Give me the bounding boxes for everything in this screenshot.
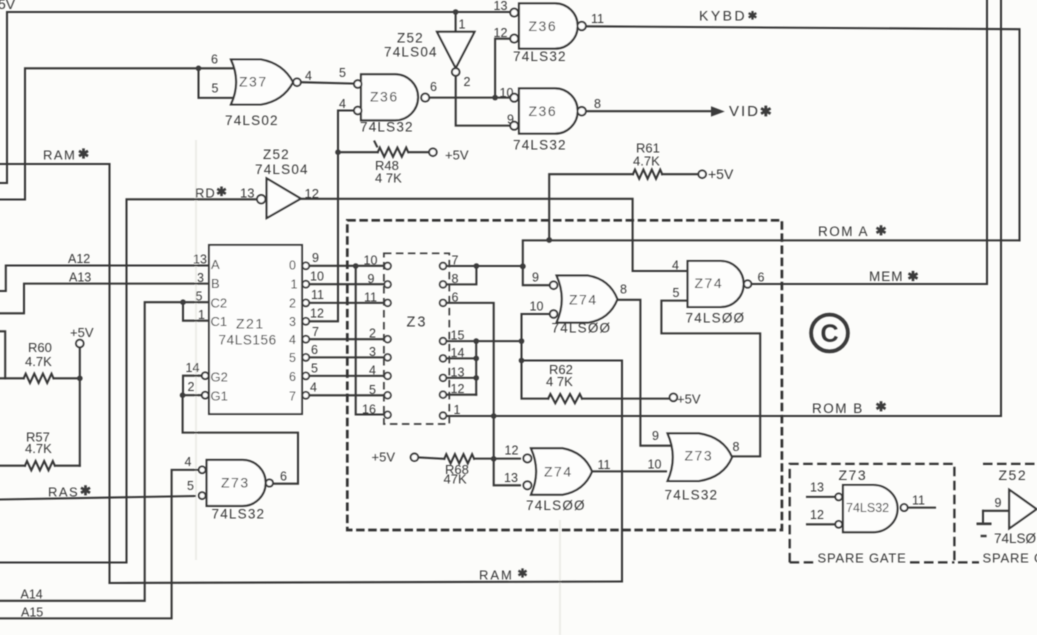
svg-text:5: 5: [339, 66, 346, 80]
svg-text:74LS32: 74LS32: [513, 49, 567, 64]
wire Z37 pin5 jog: [199, 68, 237, 98]
svg-text:1: 1: [291, 278, 298, 292]
wire G2 stub: [183, 376, 202, 396]
svg-text:5: 5: [311, 362, 318, 376]
terminal +5V R68: [411, 454, 419, 462]
svg-text:74LS32: 74LS32: [360, 119, 414, 134]
svg-text:4: 4: [305, 69, 312, 83]
svg-text:6: 6: [280, 470, 287, 484]
terminal +5V R60: [76, 340, 84, 348]
star RAM bottom: [518, 568, 526, 577]
svg-text:C2: C2: [211, 296, 228, 311]
svg-text:B: B: [211, 276, 220, 291]
wire G enable net to Z73 out: [183, 395, 298, 484]
wire R48 left lead: [338, 151, 378, 153]
svg-text:SPARE G: SPARE G: [983, 551, 1037, 566]
svg-text:12: 12: [494, 26, 508, 40]
wire +5V top rail: [0, 12, 510, 183]
dashed spare box 2 top: [983, 463, 1037, 465]
svg-text:4.7K: 4.7K: [633, 154, 660, 169]
svg-text:4.7K: 4.7K: [25, 441, 52, 456]
svg-text:MEM: MEM: [869, 269, 904, 284]
svg-text:Z73: Z73: [839, 467, 868, 483]
wire Z21 out0 to Z3 pin10: [309, 265, 384, 267]
wire R61 riser: [549, 174, 633, 240]
svg-text:11: 11: [912, 494, 925, 508]
svg-text:74LS32: 74LS32: [665, 488, 719, 503]
inverter Z52 top: [437, 32, 475, 68]
svg-text:13: 13: [810, 481, 824, 495]
svg-text:74LS32: 74LS32: [212, 507, 266, 522]
svg-text:Z3: Z3: [407, 315, 428, 331]
ground bar: [977, 522, 992, 525]
star MEM: [909, 271, 918, 281]
ground tick: [981, 535, 987, 537]
Z36 bottom output bubble 8: [578, 107, 586, 115]
wire Z74 pin9 jog: [523, 266, 550, 285]
svg-text:G1: G1: [211, 389, 228, 404]
inverter Z52 spare: [1009, 490, 1036, 529]
svg-text:10: 10: [364, 254, 378, 268]
wire R48 right lead: [409, 151, 430, 153]
wire A13: [0, 284, 210, 314]
svg-text:13: 13: [504, 471, 518, 485]
svg-text:2: 2: [369, 327, 376, 341]
svg-text:4: 4: [369, 364, 376, 378]
Z73 spare input bubble 13: [835, 494, 842, 501]
terminal +5V R48: [429, 148, 437, 156]
wire A14 net to C2: [0, 302, 210, 601]
svg-text:11: 11: [591, 12, 604, 26]
svg-text:RD: RD: [195, 186, 216, 201]
svg-text:+5V: +5V: [445, 148, 469, 163]
Z37 output bubble: [293, 78, 301, 86]
svg-text:0: 0: [289, 259, 296, 273]
svg-text:8: 8: [733, 440, 740, 454]
Z21 output bubbles: [302, 262, 309, 398]
svg-text:74LS32: 74LS32: [513, 138, 567, 153]
svg-text:1: 1: [454, 403, 461, 417]
resistor R68: [444, 454, 474, 463]
svg-text:G2: G2: [211, 369, 228, 384]
resistor R60: [24, 374, 54, 383]
resistor R57: [25, 461, 55, 470]
wire R57 right lead: [55, 465, 80, 467]
wire A15 net to Z73 pin4: [0, 470, 198, 619]
wire R62 right lead: [582, 398, 670, 400]
wire A12: [0, 266, 210, 292]
svg-text:5: 5: [369, 383, 376, 397]
Z52 top output bubble: [452, 68, 460, 76]
Z73 spare output bubble 11: [901, 504, 908, 511]
svg-text:11: 11: [311, 288, 324, 302]
svg-text:RAS: RAS: [48, 485, 79, 500]
svg-text:4 7K: 4 7K: [546, 374, 573, 389]
svg-text:74LS04: 74LS04: [255, 162, 309, 177]
gate NAND Z74 left: [557, 276, 618, 323]
svg-text:Z74: Z74: [544, 464, 573, 480]
svg-text:47K: 47K: [444, 472, 467, 487]
wire Z3 row6 net to Z74 pin13: [446, 303, 520, 485]
inverter Z52 RD: [267, 178, 301, 218]
svg-text:12: 12: [810, 508, 824, 522]
svg-text:10: 10: [648, 458, 662, 472]
svg-text:Z74: Z74: [695, 275, 724, 291]
gate OR Z36 middle: [361, 74, 418, 120]
Z74 right output bubble 6: [744, 280, 751, 287]
svg-text:5: 5: [212, 82, 219, 96]
scan streak 2: [559, 520, 561, 635]
gate OR Z36 top: [519, 3, 578, 48]
star VID: [761, 106, 770, 117]
wire Z3 pin16 riser: [356, 266, 385, 415]
svg-text:Z73: Z73: [221, 475, 250, 491]
gate OR Z36 bottom: [519, 88, 578, 133]
Z73 RAS input bubble 4: [199, 466, 206, 473]
svg-text:11: 11: [364, 291, 377, 305]
wire RAM* riser: [108, 164, 110, 583]
svg-text:3: 3: [369, 345, 376, 359]
Z21 out numbers 0-7: [289, 259, 298, 404]
svg-text:6: 6: [452, 291, 459, 305]
svg-text:12: 12: [305, 186, 319, 201]
svg-text:74LS04: 74LS04: [384, 45, 438, 60]
wire R60 left lead: [0, 377, 24, 379]
svg-text:SPARE GATE: SPARE GATE: [818, 551, 907, 566]
wire Z3 row13: [446, 377, 476, 379]
svg-text:11: 11: [598, 458, 611, 472]
svg-text:6: 6: [758, 271, 765, 285]
R48 tick mark: [375, 142, 378, 147]
svg-text:3: 3: [197, 271, 204, 285]
wire +5V stub left: [0, 331, 5, 378]
wire R68 left lead: [418, 457, 444, 458]
svg-text:9: 9: [312, 251, 319, 265]
svg-text:+5V: +5V: [677, 392, 701, 407]
Z36 mid input bubble 5: [354, 80, 362, 88]
svg-text:A13: A13: [69, 271, 91, 285]
svg-text:10: 10: [500, 86, 514, 100]
wire Z21 out7 to Z3 pin5: [309, 394, 384, 396]
star RAS: [81, 485, 90, 495]
resistor R48: [378, 148, 408, 157]
svg-text:5V: 5V: [0, 0, 16, 12]
svg-text:74LSØØ: 74LSØØ: [526, 498, 586, 513]
wire Z52 out to Z36 pin9: [456, 76, 511, 126]
wire RAS*: [0, 496, 195, 500]
svg-text:Z52: Z52: [397, 30, 424, 45]
wire R68 to Z74 pin12: [474, 458, 520, 460]
wire R60-R57 riser: [79, 378, 81, 465]
svg-text:13: 13: [193, 253, 207, 267]
svg-text:3: 3: [289, 315, 296, 329]
svg-text:14: 14: [451, 346, 465, 360]
wire Z3 row15: [446, 340, 521, 342]
svg-text:74LSØØ: 74LSØØ: [686, 311, 746, 326]
dashed Z3 socket outline: [384, 253, 449, 424]
svg-text:74LSØ: 74LSØ: [994, 531, 1037, 546]
svg-text:8: 8: [620, 283, 627, 297]
wire G1 stub: [183, 394, 202, 396]
wire Z74 pin10 riser: [522, 314, 551, 341]
svg-text:ROM A: ROM A: [818, 224, 869, 239]
wire ROM B run: [446, 0, 1001, 416]
Z3 left pin numbers: [362, 254, 377, 417]
wire spare Z73 pin12: [807, 523, 835, 525]
svg-text:13: 13: [240, 185, 254, 200]
wire Z21 out6 to Z3 pin4: [309, 375, 384, 377]
svg-text:5: 5: [196, 289, 203, 303]
wire KYBD* run: [583, 26, 1020, 240]
svg-text:4: 4: [339, 97, 346, 111]
section mark C circle: [811, 315, 848, 352]
wire RD* net: [0, 199, 255, 562]
svg-text:Z73: Z73: [685, 447, 714, 463]
Z73 spare input bubble 12: [835, 521, 842, 528]
Z36 bottom input bubble 10: [510, 94, 518, 102]
svg-text:4: 4: [185, 455, 192, 469]
wire MEM* run: [752, 0, 987, 284]
Z73 RAS output bubble 6: [266, 479, 273, 486]
gate NOR Z37: [231, 60, 293, 105]
svg-text:1: 1: [198, 308, 205, 322]
wire pin12 riser: [495, 39, 510, 98]
terminal +5V R62: [670, 394, 678, 402]
svg-text:10: 10: [530, 299, 544, 313]
Z3 left pin bubbles: [384, 263, 391, 418]
wire Z74 out11 to Z73 pin10: [592, 470, 666, 472]
Z21 G1 bubble: [202, 392, 209, 399]
gate NAND Z74 right: [688, 261, 744, 307]
ground riser: [982, 511, 984, 523]
svg-text:9: 9: [652, 429, 659, 443]
Z74 lower input bubble 12: [523, 454, 531, 462]
dashed spare gate box: [790, 464, 955, 563]
dashed spare box 2 bottom: [958, 561, 979, 563]
wire Z3 row7: [446, 265, 523, 267]
svg-text:16: 16: [362, 403, 376, 417]
Z36 top input bubble 12: [510, 35, 518, 43]
svg-text:Z52: Z52: [999, 467, 1028, 483]
svg-text:74LS32: 74LS32: [846, 501, 889, 515]
svg-text:Z37: Z37: [239, 74, 268, 90]
svg-text:74LS02: 74LS02: [225, 113, 279, 128]
svg-text:C: C: [820, 320, 838, 348]
svg-text:7: 7: [312, 325, 319, 339]
wire ROM A run: [523, 240, 1020, 266]
scan streak: [195, 140, 197, 560]
svg-text:A14: A14: [21, 587, 43, 601]
svg-text:10: 10: [310, 270, 324, 284]
Z36 top output bubble 11: [578, 22, 586, 30]
wire RAM tie riser: [520, 341, 522, 360]
svg-text:VID: VID: [729, 103, 760, 120]
svg-text:Z36: Z36: [529, 18, 558, 34]
star ROM A: [877, 225, 886, 235]
svg-text:74LS156: 74LS156: [219, 333, 277, 348]
svg-text:4.7K: 4.7K: [25, 354, 52, 369]
svg-text:8: 8: [594, 97, 601, 111]
svg-text:6: 6: [430, 80, 437, 94]
wire Z3 row12: [446, 394, 476, 396]
svg-text:5: 5: [187, 479, 194, 493]
wire Z37 input net: [0, 68, 234, 199]
wire Z52 pin1 stub: [455, 12, 457, 33]
wire RAM* bottom run: [110, 582, 623, 584]
wire RD inverter output to Z74 pin4: [301, 199, 689, 271]
wire RAM* right riser: [522, 361, 623, 582]
svg-text:2: 2: [464, 75, 471, 89]
Z74 left input bubble 10: [550, 310, 558, 318]
svg-text:KYBD: KYBD: [699, 7, 747, 23]
gate OR Z73 right: [668, 433, 732, 481]
wire +5V to R60: [79, 347, 81, 378]
svg-text:Z74: Z74: [569, 292, 598, 308]
wire Z36 pin4 riser to Z21 out3: [309, 111, 354, 322]
star RAM top: [79, 148, 88, 158]
Z36 mid input bubble 4: [354, 107, 362, 115]
wire rows 15-12 tie: [475, 341, 477, 395]
wire Z37 out to Z36 pin5: [301, 82, 355, 83]
svg-text:4: 4: [310, 380, 317, 394]
wire Z21 out4 to Z3 pin2: [309, 338, 384, 340]
Z21 right pin numbers: [310, 251, 324, 394]
svg-text:A12: A12: [68, 252, 90, 266]
svg-text:8: 8: [452, 272, 459, 286]
wire Z3 row14: [446, 357, 476, 359]
wire Z21 out2 to Z3 pin11: [309, 302, 384, 304]
wire spare Z52 input: [983, 510, 1009, 512]
wire VID*: [584, 110, 714, 112]
gate OR Z73 spare: [843, 485, 898, 532]
terminal +5V R61: [698, 170, 706, 178]
svg-text:R60: R60: [28, 340, 52, 355]
star KYBD: [749, 11, 757, 20]
svg-text:6: 6: [289, 370, 296, 384]
wire R57 left lead: [0, 465, 25, 467]
svg-text:5: 5: [673, 286, 680, 300]
svg-text:7: 7: [289, 390, 296, 404]
svg-text:12: 12: [505, 444, 519, 458]
Z3 right pin bubbles: [440, 263, 447, 419]
svg-text:12: 12: [310, 307, 324, 321]
svg-text:4: 4: [289, 333, 296, 347]
star ROM B: [877, 401, 886, 411]
Z3 right pin numbers: [451, 254, 465, 418]
svg-text:RAM: RAM: [479, 568, 514, 583]
svg-text:14: 14: [186, 361, 200, 375]
Z21 left pin numbers: [186, 253, 207, 395]
svg-text:13: 13: [451, 365, 465, 379]
svg-text:RAM: RAM: [43, 148, 76, 163]
Z36 bottom input bubble 9: [510, 122, 518, 130]
svg-text:9: 9: [995, 496, 1002, 510]
svg-text:4: 4: [672, 259, 679, 273]
gate NAND Z74 lower: [531, 448, 592, 494]
svg-text:9: 9: [532, 270, 539, 284]
svg-text:13: 13: [494, 0, 508, 13]
svg-text:6: 6: [311, 343, 318, 357]
VID arrowhead: [711, 106, 725, 116]
svg-text:C1: C1: [211, 314, 228, 329]
svg-text:Z52: Z52: [263, 147, 290, 162]
wire R61 right lead: [662, 173, 698, 175]
svg-text:A15: A15: [21, 606, 43, 620]
Z36 top input bubble 13: [510, 9, 518, 17]
svg-text:Z36: Z36: [529, 103, 558, 119]
wire C1 jog: [183, 302, 210, 321]
Z36 mid output bubble 6: [421, 94, 429, 102]
star RD: [217, 186, 226, 196]
wire Z3 row8 jog: [446, 266, 476, 284]
svg-text:4 7K: 4 7K: [375, 171, 402, 186]
resistor R61: [633, 170, 662, 179]
svg-text:Z21: Z21: [236, 316, 265, 332]
Z74 left input bubble 9: [550, 281, 558, 289]
svg-text:6: 6: [211, 53, 218, 67]
wire Z74 out8 to Z73 pin9: [617, 300, 671, 446]
svg-text:12: 12: [451, 382, 465, 396]
svg-text:74LSØØ: 74LSØØ: [552, 321, 612, 336]
wire RAM* top: [0, 163, 110, 165]
svg-text:1: 1: [459, 18, 466, 32]
Z21 G2 bubble: [202, 372, 209, 379]
svg-text:+5V: +5V: [70, 325, 94, 340]
IC Z21 74LS156 body: [209, 245, 302, 414]
svg-text:+5V: +5V: [372, 450, 396, 465]
resistor R62: [548, 394, 582, 403]
svg-text:2: 2: [188, 380, 195, 394]
gate OR Z73 RAS: [207, 460, 266, 506]
wire Z21 out1 to Z3 pin9: [309, 283, 384, 285]
svg-text:ROM B: ROM B: [812, 401, 864, 416]
svg-text:+5V: +5V: [708, 166, 734, 182]
svg-text:2: 2: [289, 297, 296, 311]
wire Z36 out6 to pin10: [428, 97, 510, 99]
wire Z21 out5 to Z3 pin3: [309, 356, 384, 358]
wire spare Z73 pin13: [807, 496, 835, 498]
svg-text:9: 9: [507, 113, 514, 127]
svg-text:A: A: [211, 257, 220, 272]
wire spare Z73 out11: [908, 507, 935, 509]
Z52 RD input bubble: [257, 195, 265, 203]
svg-text:15: 15: [451, 329, 465, 343]
svg-text:Z36: Z36: [370, 89, 399, 105]
Z74 lower input bubble 13: [523, 481, 531, 489]
svg-text:9: 9: [368, 272, 375, 286]
wire Z73 out8 to Z74 pin5: [661, 301, 760, 457]
svg-text:5: 5: [289, 351, 296, 365]
Z73 RAS input bubble 5: [199, 492, 206, 499]
wire R60 right lead: [54, 377, 80, 379]
dashed decoder box: [347, 220, 782, 530]
svg-text:7: 7: [452, 254, 459, 268]
wire R62 left lead: [522, 361, 549, 399]
